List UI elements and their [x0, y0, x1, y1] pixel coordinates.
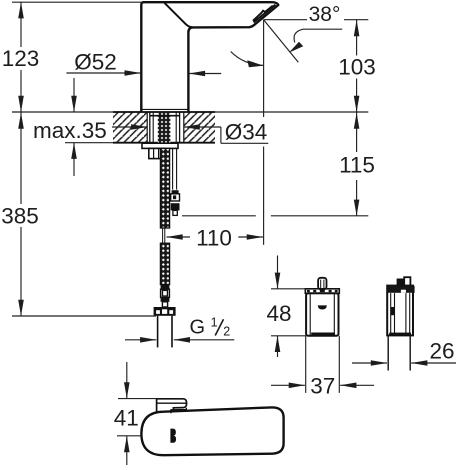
svg-text:Ø34: Ø34	[225, 119, 268, 144]
svg-text:48: 48	[266, 301, 291, 326]
svg-text:max.35: max.35	[33, 118, 107, 143]
svg-text:41: 41	[114, 406, 139, 431]
svg-text:385: 385	[1, 203, 39, 228]
svg-text:Ø52: Ø52	[74, 50, 117, 75]
svg-text:G: G	[190, 317, 206, 339]
svg-text:26: 26	[429, 338, 454, 363]
svg-text:115: 115	[339, 152, 375, 177]
svg-text:1: 1	[211, 315, 218, 329]
svg-text:123: 123	[2, 46, 40, 71]
svg-text:38°: 38°	[309, 3, 341, 26]
svg-text:37: 37	[310, 374, 335, 399]
svg-text:103: 103	[338, 54, 376, 79]
svg-text:110: 110	[196, 226, 232, 251]
svg-text:2: 2	[223, 325, 230, 339]
